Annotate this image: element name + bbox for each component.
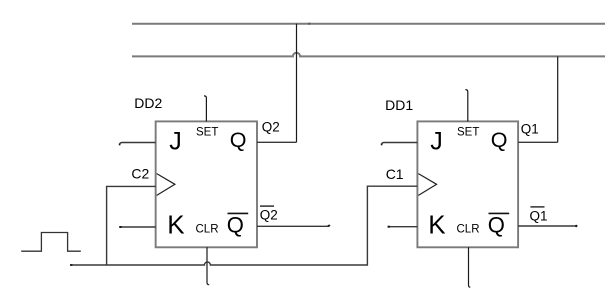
wire: bottom bus with hop over CLR vertical, corner up to C1 input: [70, 186, 417, 265]
svg-text:K: K: [167, 209, 185, 239]
wire: vertical from Q2 output up to bus line 1: [296, 24, 298, 143]
wire: CLR vertical DD2: [207, 247, 209, 284]
svg-text:C2: C2: [131, 165, 149, 181]
wire: vertical from Q1 output up to bus line 2: [557, 56, 559, 142]
wire: Q1-bar output: [518, 225, 577, 227]
svg-text:DD2: DD2: [134, 95, 162, 111]
svg-text:SET: SET: [196, 127, 218, 139]
svg-text:CLR: CLR: [457, 223, 480, 235]
flip-flop DD2 box: [156, 121, 257, 247]
flip-flop DD1 box: [417, 121, 518, 247]
svg-text:Q2: Q2: [260, 207, 278, 222]
wire: top bus line 1: [132, 23, 605, 25]
svg-text:Q2: Q2: [262, 120, 280, 135]
svg-text:SET: SET: [457, 127, 479, 139]
wire: J input stub DD2: [120, 143, 156, 146]
clock pulse symbol: [21, 233, 81, 252]
clock triangle DD1: [418, 174, 436, 196]
svg-text:DD1: DD1: [385, 97, 413, 113]
svg-text:Q: Q: [227, 213, 244, 238]
clock triangle DD2: [157, 174, 175, 196]
svg-text:J: J: [169, 128, 182, 156]
wire: J input stub DD1: [382, 143, 418, 146]
svg-text:Q: Q: [491, 128, 508, 152]
wire: top bus line 2 with hop over vertical at x=296.5: [132, 53, 605, 57]
wire: SET vertical DD2 with top hook: [204, 96, 206, 122]
wire: C2 clock input with vertical drop to bottom bus: [107, 186, 156, 265]
wire: Q1 output to vertical: [518, 141, 558, 143]
svg-text:Q: Q: [230, 128, 247, 152]
svg-text:K: K: [428, 209, 446, 239]
svg-text:CLR: CLR: [196, 223, 219, 235]
wire: Q2 output to vertical: [257, 141, 297, 143]
svg-text:J: J: [430, 128, 443, 156]
junction dot on bus line 1: [308, 23, 310, 25]
svg-text:Q1: Q1: [530, 208, 548, 223]
svg-text:Q1: Q1: [521, 121, 539, 136]
wire: SET vertical DD1 with top hook: [465, 90, 467, 122]
wire: CLR vertical DD1: [469, 247, 471, 287]
wire: K input stub DD2: [119, 226, 156, 228]
svg-text:Q: Q: [488, 213, 505, 238]
wire: Q2-bar output: [257, 225, 330, 226]
svg-text:C1: C1: [386, 166, 404, 182]
wire: K input stub DD1: [388, 226, 418, 228]
